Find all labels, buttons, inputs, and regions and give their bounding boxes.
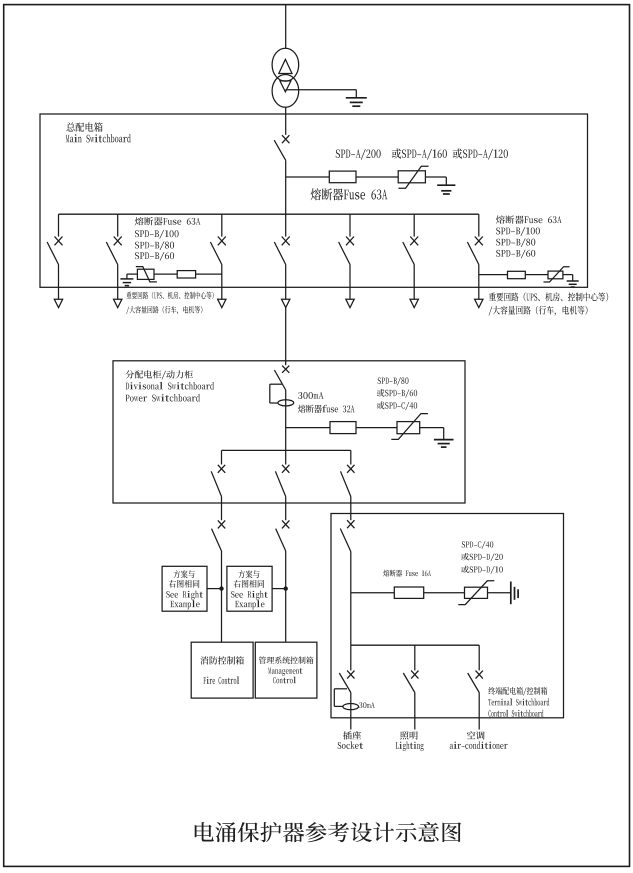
fuse FU-B right 63A (508, 271, 526, 278)
switch QF10 divisional incomer cross (282, 366, 289, 373)
title: 电涌保护器参考设计示意图 (195, 822, 461, 842)
switch QF13 drop (350, 450, 352, 464)
label: left SPD-B/100 (135, 230, 179, 239)
RCD toroid ellipse (socket) (343, 704, 359, 710)
label: 总配电箱 (66, 122, 102, 131)
switch QF0 main incomer (contact cross) (282, 135, 289, 143)
label: 插座 (343, 731, 361, 739)
wire: tap to fuse FU-A (286, 176, 330, 178)
wire: management feeder down (285, 551, 287, 642)
wire: box1 to fire feeder (207, 588, 222, 590)
switch QF4 (to divisional board) contact cross (282, 237, 290, 246)
label: box1 方案与 (173, 570, 194, 578)
enclosure: see-right-example box 2 (227, 566, 272, 611)
wire: QF6 feeder through box bottom (413, 265, 415, 300)
label: Lighting (396, 741, 424, 751)
switch QF22 (management feeder) blade (276, 529, 286, 551)
wire: QF13 out of box (350, 497, 352, 514)
node: junction dot on management feeder (284, 586, 288, 590)
enclosure: management control box (255, 642, 317, 698)
switch QF6 drop from busbar (413, 214, 415, 236)
fuse FU30 16A (394, 587, 423, 598)
ground: right SPD-B earth (567, 281, 579, 287)
wire: tap to fuse FU30 (351, 592, 395, 594)
fuse FU10 32A (330, 422, 356, 434)
enclosure: main switchboard box (40, 114, 588, 287)
label: 管理系统控制箱 (259, 656, 314, 663)
label: or SPD-D/10 (461, 566, 503, 574)
SPD-B varistor (left) (136, 267, 157, 282)
switch QF11 drop (221, 450, 223, 464)
wire: QF12 out of box (285, 497, 287, 521)
SPD-B varistor (divisional) (391, 414, 428, 440)
label: box1 Example (170, 600, 199, 609)
wire: lighting branch out (414, 693, 416, 730)
wire: QF3 feeder through box bottom (221, 265, 223, 300)
switch QF13 blade (341, 471, 351, 496)
switch QF3 contact cross (218, 237, 226, 246)
label: or SPD-B/60 (377, 389, 417, 398)
label: 终端配电箱/控制箱 (488, 687, 547, 696)
wire: SPD-B left to fuse (154, 273, 177, 275)
label: 30mA (359, 702, 375, 708)
wire: tap to fuse FU10 (286, 427, 330, 429)
wire: socket branch out (350, 693, 352, 730)
label: air-conditioner (450, 741, 508, 748)
switch QF1 drop from busbar (58, 214, 60, 236)
switch QF30 terminal incomer cross (347, 520, 354, 528)
wire: fuse FU10 to SPD (356, 427, 397, 429)
label: Fire Control (203, 676, 239, 683)
label: fuse 63A (main) (311, 188, 388, 200)
label: left fuse 63A (135, 217, 201, 225)
switch QF12 blade (275, 471, 285, 496)
wire: fuse to branch QF3 (196, 273, 222, 275)
wire: QF7 feeder through box bottom (478, 265, 480, 300)
wire: QF2 feeder through box bottom (117, 265, 119, 300)
switch QF32 lighting blade (403, 673, 415, 693)
switch QF11 blade (211, 471, 221, 496)
ground: terminal SPD earth (rotated) (511, 582, 518, 605)
switch QF33 air-conditioner blade (468, 673, 480, 693)
switch QF7 blade (467, 242, 478, 265)
switch QF31 socket blade (339, 673, 351, 693)
RCD sensing loop (300mA) (270, 384, 283, 403)
feeder arrow at QF3 (218, 299, 226, 307)
label: box2 右图相同 (233, 580, 264, 588)
wire: main busbar (59, 213, 479, 215)
switch QF21 (fire feeder) contact cross (218, 520, 225, 528)
switch QF6 blade (403, 242, 414, 265)
label: right fuse 63A (496, 215, 562, 223)
wire: fuse FU30 to SPD (424, 592, 465, 594)
ground: divisional SPD earth (434, 440, 454, 448)
switch QF3 blade (210, 242, 221, 265)
label: Terminal Switchboard (488, 698, 549, 705)
switch QF5 drop from busbar (349, 214, 351, 236)
wire: box top to divisional breaker (285, 361, 287, 365)
RCD toroid ellipse (278, 400, 294, 406)
wire: fire feeder down (221, 551, 223, 642)
label: 分配电柜/动力柜 (125, 370, 192, 379)
label: Socket (338, 741, 363, 748)
wire: main breaker to busbar (285, 160, 287, 214)
switch QF2 contact cross (114, 237, 122, 246)
switch QF3 drop from busbar (221, 214, 223, 236)
wire: QF4 (to divisional board) feeder through box bottom (285, 265, 287, 300)
switch QF30 blade (340, 529, 351, 552)
label: right SPD-B/60 (496, 250, 535, 259)
wire: SPD-B right to earth (563, 275, 573, 281)
wire: QF5 feeder through box bottom (349, 265, 351, 300)
label: SPD-A/200 or SPD-A/160 or SPD-A/120 (336, 148, 508, 159)
switch QF33 air-conditioner contact cross (476, 671, 483, 679)
switch QF1 contact cross (55, 237, 63, 246)
label: box2 Example (235, 600, 264, 609)
switch QF22 (management feeder) contact cross (282, 520, 289, 528)
wire: SPD to earth bar (488, 592, 511, 594)
switch QF7 drop from busbar (478, 214, 480, 236)
switch QF12 contact cross (282, 465, 289, 473)
wire: branch QF7 to fuse (479, 274, 508, 276)
wire: QF11 out of box (221, 497, 223, 521)
wire: divisional distribution bus (222, 449, 351, 451)
label: or SPD-C/40 (377, 401, 417, 410)
switch QF12 drop (285, 450, 287, 464)
label: box1 See Right (166, 591, 203, 600)
label: right feeders note line1 (489, 292, 608, 301)
switch QF5 contact cross (346, 237, 354, 246)
SPD-C varistor (terminal) (458, 581, 494, 605)
wire: into terminal box (350, 514, 352, 521)
label: left SPD-B/60 (135, 252, 174, 261)
enclosure: divisional switchboard box (113, 361, 465, 503)
label: right feeders note line2 (489, 306, 588, 316)
transformer T1 (two-winding, delta/wye) (272, 48, 299, 107)
wire: QF1 feeder through box bottom (58, 265, 60, 300)
label: fuse 32A (298, 405, 355, 413)
switch QF2 drop from busbar (117, 214, 119, 236)
feeder arrow at QF1 (54, 299, 62, 307)
wire: supply drop from top border to transformer (285, 4, 287, 48)
ground: SPD-A earth (437, 185, 455, 194)
switch QF4 (to divisional board) blade (274, 242, 285, 265)
switch QF13 contact cross (347, 465, 354, 473)
wire: breaker through RCD to lower bus (285, 390, 287, 450)
node: junction dot on fire feeder (219, 586, 223, 590)
switch QF33 air-conditioner drop (478, 645, 480, 670)
label: right SPD-B/100 (496, 227, 540, 236)
switch QF10 blade (274, 370, 285, 390)
label: Control (273, 677, 296, 684)
enclosure: see-right-example box 1 (162, 566, 207, 611)
label: box1 右图相同 (169, 580, 200, 588)
feeder arrow at QF4 (to divisional board) (282, 299, 290, 307)
wire: air-conditioner branch out (478, 693, 480, 730)
label: Divisonal Switchboard (125, 382, 214, 389)
label: fuse 16A (383, 570, 431, 577)
label: left SPD-B/80 (135, 241, 174, 250)
label: left feeders note line1 (126, 292, 213, 300)
switch QF7 contact cross (475, 237, 483, 246)
ground: left SPD-B earth (120, 279, 133, 286)
label: 空调 (467, 731, 485, 739)
wire: QF30 to terminal bus (350, 552, 352, 646)
label: 照明 (400, 731, 418, 739)
wire: SPD-A to earth (425, 177, 446, 185)
wire: earth to SPD-B left (127, 274, 137, 279)
wire: transformer to main breaker (285, 107, 287, 135)
switch QF21 (fire feeder) blade (212, 529, 222, 551)
switch QF32 lighting contact cross (411, 671, 418, 679)
label: Control Switchboard (488, 710, 543, 717)
switch QF0 blade (274, 140, 286, 160)
switch QF5 blade (339, 242, 350, 265)
enclosure: terminal switchboard box (331, 514, 564, 718)
enclosure: fire control box (191, 642, 253, 698)
label: right SPD-B/80 (496, 238, 535, 247)
label: SPD-B/80 (378, 377, 409, 385)
wire: fuse FU-A to SPD-A (356, 176, 398, 178)
RCD sensing loop (30mA socket) (334, 689, 347, 707)
label: Main Switchboard (66, 134, 131, 142)
SPD-B varistor (right) (544, 267, 570, 282)
switch QF2 blade (106, 242, 117, 265)
feeder arrow at QF5 (346, 299, 354, 307)
label: left feeders note line2 (126, 306, 202, 314)
wire: terminal distribution bus (351, 644, 479, 646)
feeder arrow at QF7 (475, 299, 483, 307)
wire: SPD to earth (divisional) (420, 428, 444, 440)
label: Management (268, 668, 302, 676)
switch QF31 socket drop (350, 645, 352, 670)
label: box2 方案与 (238, 570, 259, 578)
switch QF32 lighting drop (414, 645, 416, 670)
fuse FU-B left 63A (177, 271, 195, 278)
wire: box2 to management feeder (272, 588, 286, 590)
feeder arrow at QF2 (114, 299, 122, 307)
switch QF31 socket contact cross (347, 671, 354, 679)
switch QF11 contact cross (218, 465, 225, 473)
label: or SPD-D/20 (461, 553, 503, 561)
fuse FU-A 63A (329, 171, 356, 183)
SPD-A varistor RV-A (398, 166, 428, 188)
switch QF6 contact cross (410, 237, 418, 246)
label: SPD-C/40 (462, 541, 494, 549)
ground: transformer neutral earth (346, 98, 367, 106)
label: Power Switchboard (126, 394, 200, 401)
wire: feeder to divisional board (285, 308, 287, 361)
label: 消防控制箱 (200, 656, 244, 664)
label: 300mA (298, 392, 324, 399)
label: box2 See Right (231, 591, 268, 600)
switch QF1 blade (47, 242, 58, 265)
wire: transformer neutral to earth (285, 90, 356, 98)
switch QF4 (to divisional board) drop from busbar (285, 214, 287, 236)
feeder arrow at QF6 (410, 299, 418, 307)
wire: fuse to SPD-B right (525, 274, 548, 276)
